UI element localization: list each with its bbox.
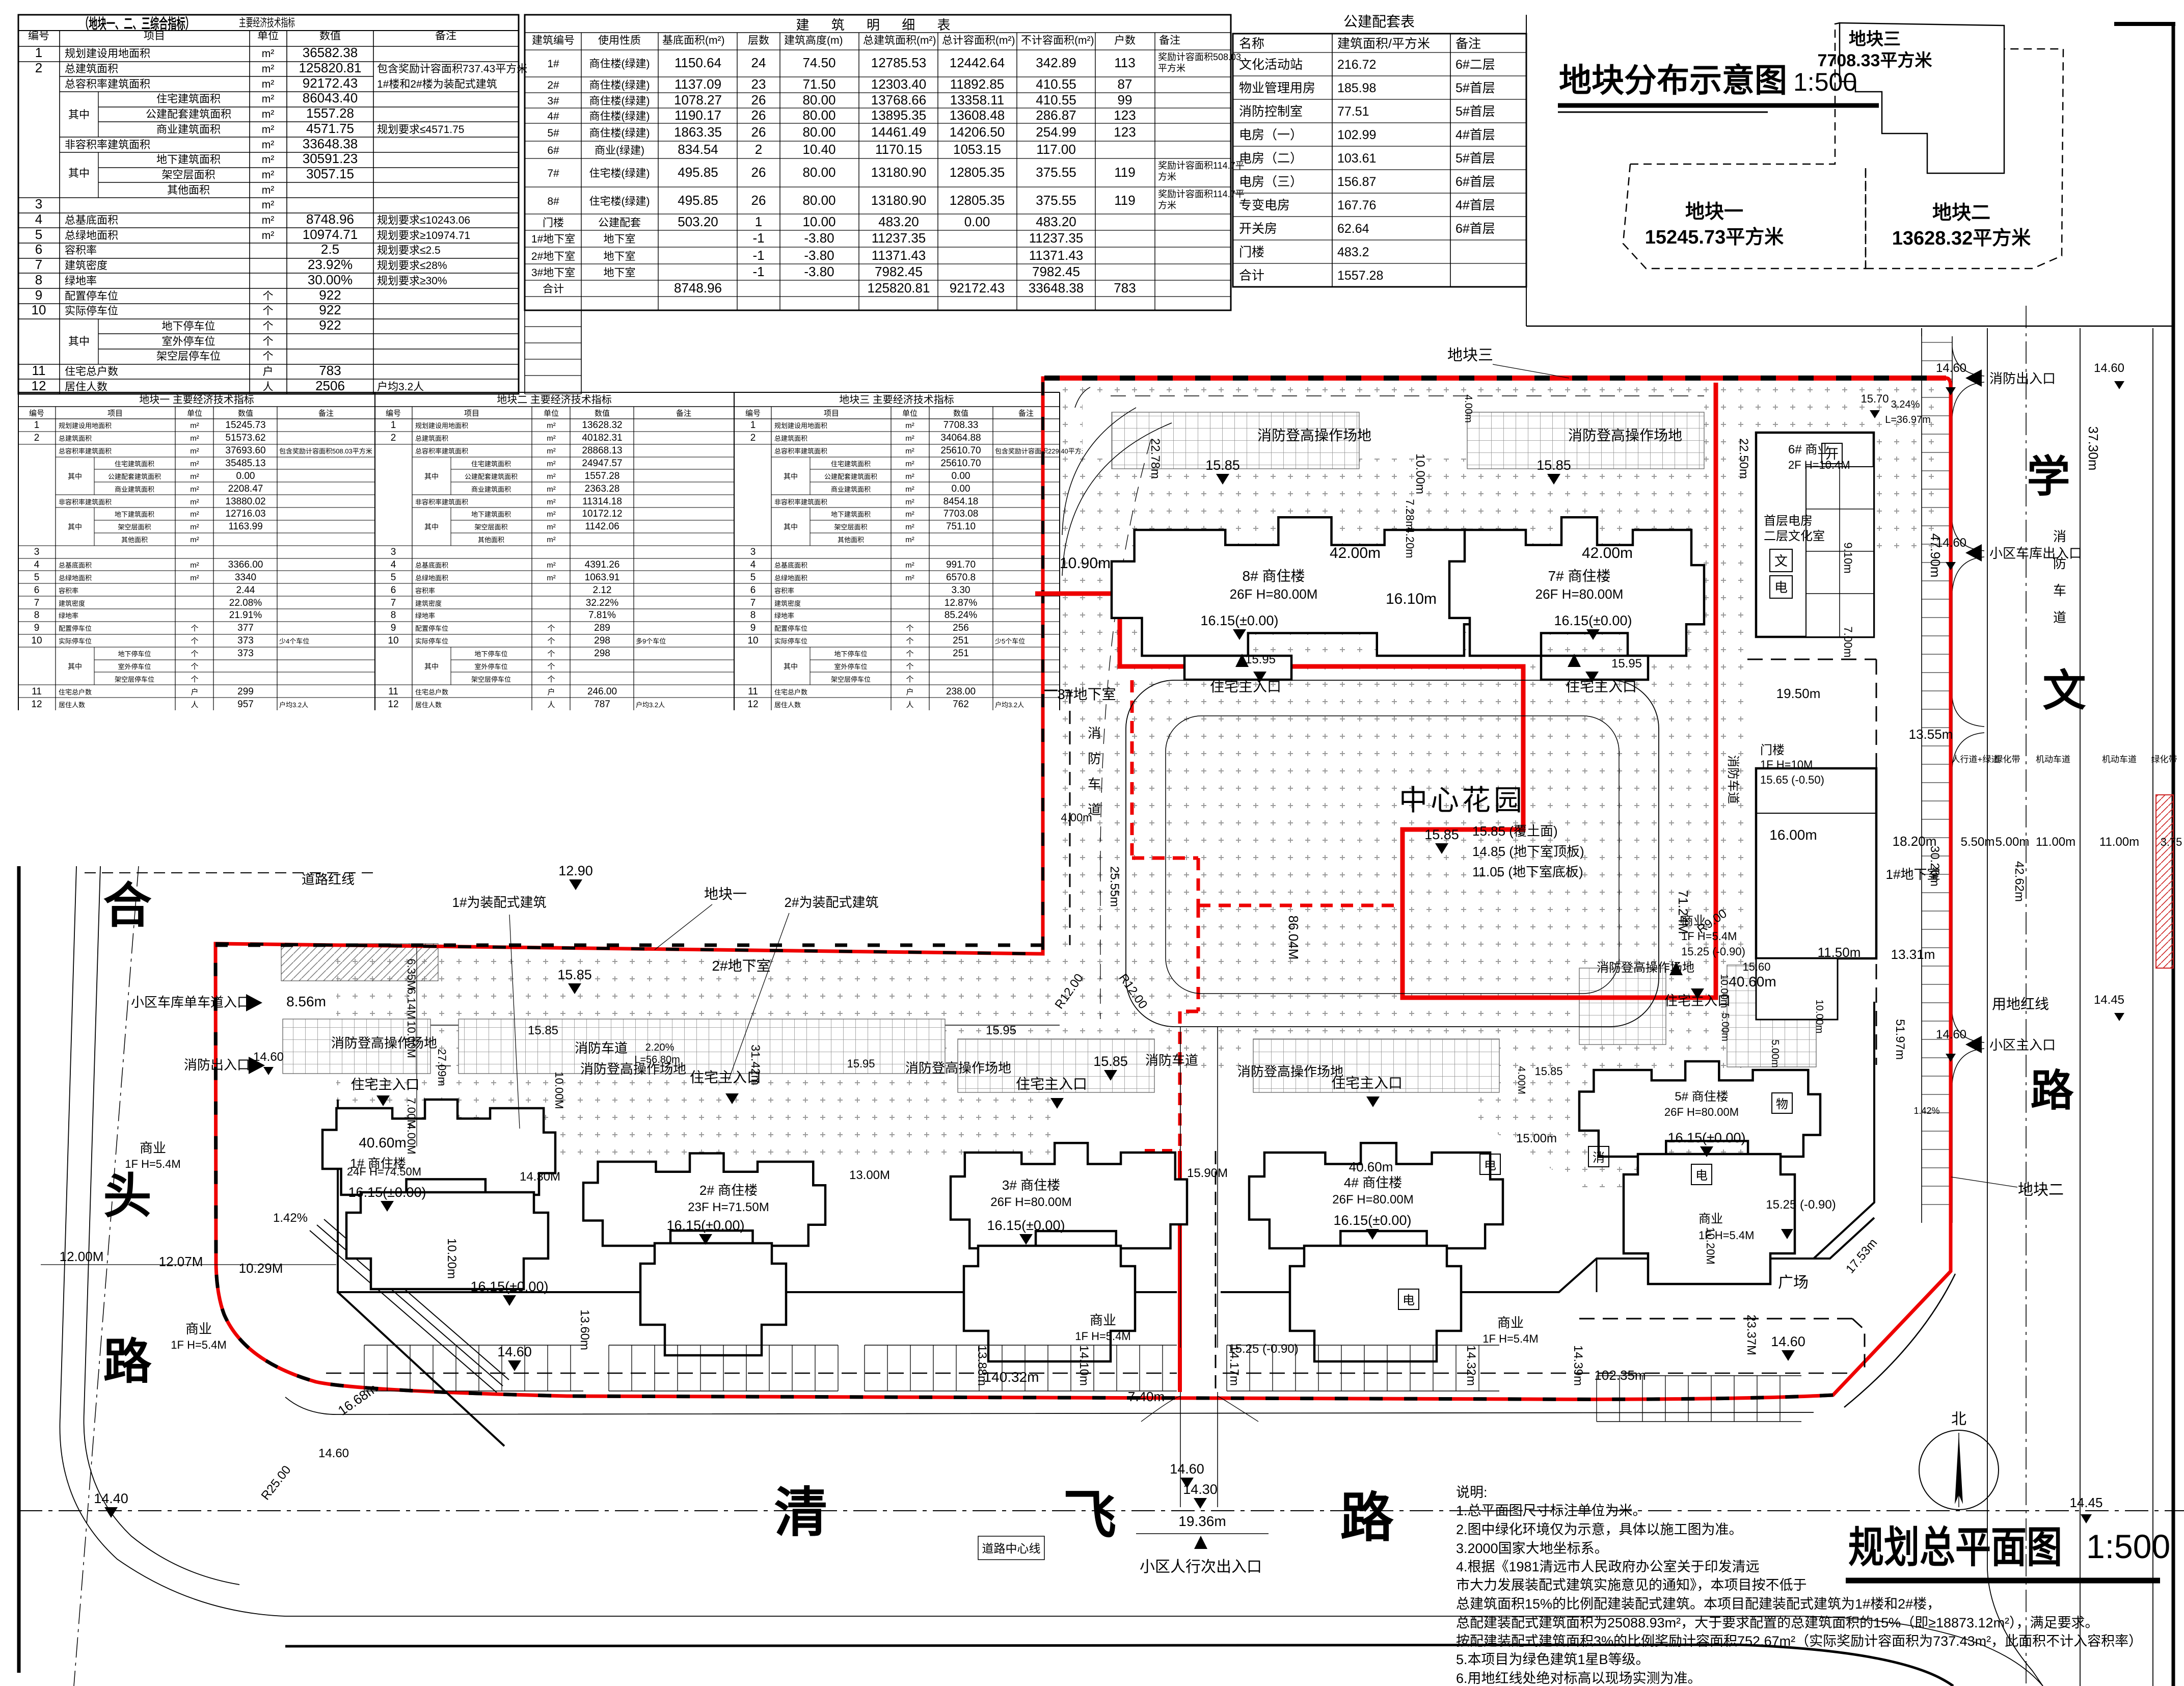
svg-text:13.60m: 13.60m <box>578 1309 591 1350</box>
svg-text:12785.53: 12785.53 <box>871 55 926 70</box>
svg-text:14.85 (地下室顶板): 14.85 (地下室顶板) <box>1472 844 1584 859</box>
svg-text:1150.64: 1150.64 <box>675 55 721 70</box>
svg-text:12716.03: 12716.03 <box>225 509 265 519</box>
svg-text:地下停车位: 地下停车位 <box>474 650 507 658</box>
svg-text:14.60: 14.60 <box>253 1050 284 1064</box>
svg-text:m²: m² <box>547 421 556 430</box>
svg-text:m²: m² <box>190 472 199 481</box>
svg-text:公建配套建筑面积: 公建配套建筑面积 <box>824 473 877 480</box>
svg-text:36582.38: 36582.38 <box>303 45 358 60</box>
svg-text:住宅总户数: 住宅总户数 <box>774 688 807 696</box>
svg-text:绿地率: 绿地率 <box>59 612 78 620</box>
svg-text:小区车库出入口: 小区车库出入口 <box>1989 546 2082 561</box>
svg-text:3: 3 <box>35 196 42 211</box>
svg-text:92172.43: 92172.43 <box>303 75 358 91</box>
svg-text:规划建设用地面积: 规划建设用地面积 <box>774 422 827 430</box>
svg-text:奖励计容面积114.7平: 奖励计容面积114.7平 <box>1158 160 1245 171</box>
svg-text:数值: 数值 <box>319 30 341 42</box>
svg-text:375.55: 375.55 <box>1036 165 1076 180</box>
svg-text:15.85 (覆土面): 15.85 (覆土面) <box>1472 823 1558 839</box>
svg-text:住宅楼(绿建): 住宅楼(绿建) <box>589 196 650 207</box>
svg-text:483.20: 483.20 <box>878 214 919 229</box>
svg-text:80.00: 80.00 <box>802 193 835 208</box>
svg-text:156.87: 156.87 <box>1337 175 1376 189</box>
building 2# lower wing <box>640 1243 786 1355</box>
svg-text:2: 2 <box>35 60 42 75</box>
svg-text:m²: m² <box>905 536 914 544</box>
svg-text:4: 4 <box>35 211 42 227</box>
black road edge curve bottom-right <box>1844 1274 1955 1407</box>
svg-text:人: 人 <box>191 701 198 709</box>
svg-text:922: 922 <box>319 302 341 317</box>
svg-text:9: 9 <box>35 287 42 303</box>
east road top corner <box>1921 328 1922 336</box>
svg-text:架空层面积: 架空层面积 <box>118 523 151 531</box>
svg-text:8.56m: 8.56m <box>286 994 326 1009</box>
svg-text:头: 头 <box>103 1169 151 1223</box>
svg-text:14206.50: 14206.50 <box>950 124 1005 140</box>
svg-text:5.00m: 5.00m <box>1719 1013 1731 1041</box>
svg-text:34064.88: 34064.88 <box>940 433 981 443</box>
svg-text:15.95: 15.95 <box>986 1024 1016 1037</box>
svg-text:787: 787 <box>594 699 610 710</box>
svg-text:25610.70: 25610.70 <box>940 445 981 456</box>
svg-text:15.60: 15.60 <box>1742 960 1770 973</box>
svg-text:3#: 3# <box>547 95 559 107</box>
svg-text:个: 个 <box>263 320 274 332</box>
svg-text:495.85: 495.85 <box>678 193 718 208</box>
svg-text:9: 9 <box>391 623 396 633</box>
parking stalls along south road <box>364 1345 583 1346</box>
svg-text:地下建筑面积: 地下建筑面积 <box>831 511 871 518</box>
svg-text:15.25 (-0.90): 15.25 (-0.90) <box>1766 1198 1836 1212</box>
svg-text:配置停车位: 配置停车位 <box>65 290 118 302</box>
entrance arrow <box>1669 962 1683 975</box>
svg-text:个: 个 <box>906 624 913 633</box>
svg-text:架空层面积: 架空层面积 <box>834 523 867 531</box>
svg-text:不计容面积(m²): 不计容面积(m²) <box>1021 35 1094 46</box>
svg-text:5: 5 <box>34 572 40 583</box>
svg-text:3# 商住楼: 3# 商住楼 <box>1002 1177 1060 1193</box>
svg-text:总基底面积: 总基底面积 <box>65 215 118 226</box>
svg-text:m²: m² <box>262 78 275 90</box>
svg-text:373: 373 <box>237 635 254 646</box>
svg-text:10.40: 10.40 <box>802 142 835 157</box>
svg-text:m²: m² <box>190 447 199 456</box>
svg-text:项目: 项目 <box>107 409 123 418</box>
svg-text:26F H=80.00M: 26F H=80.00M <box>1230 586 1318 602</box>
svg-text:规划要求≤2.5: 规划要求≤2.5 <box>377 245 441 256</box>
svg-text:4.00m: 4.00m <box>1463 394 1474 423</box>
svg-text:m²: m² <box>190 434 199 443</box>
svg-text:5: 5 <box>35 227 42 242</box>
svg-text:7703.08: 7703.08 <box>943 509 979 519</box>
svg-text:奖励计容面积508.03: 奖励计容面积508.03 <box>1158 52 1241 62</box>
svg-text:6: 6 <box>34 585 40 596</box>
svg-text:个: 个 <box>547 650 555 658</box>
svg-text:10.00m: 10.00m <box>1718 974 1730 1008</box>
svg-text:建筑密度: 建筑密度 <box>774 600 801 607</box>
building 5# 商住楼 26F slab <box>1579 1061 1820 1157</box>
svg-text:商住楼(绿建): 商住楼(绿建) <box>589 95 650 107</box>
svg-text:数值: 数值 <box>238 409 253 418</box>
svg-text:8748.96: 8748.96 <box>306 211 354 227</box>
svg-text:个: 个 <box>906 662 913 671</box>
svg-text:m²: m² <box>262 154 275 166</box>
plus pattern region plot2 center <box>1477 999 1747 1187</box>
svg-text:7982.45: 7982.45 <box>875 264 923 279</box>
svg-text:单位: 单位 <box>257 30 279 42</box>
svg-text:m²: m² <box>547 485 556 494</box>
svg-text:4: 4 <box>750 559 756 570</box>
svg-text:总绿地面积: 总绿地面积 <box>65 230 118 242</box>
west road centerline dash-dot <box>74 866 139 1686</box>
svg-text:503.20: 503.20 <box>678 214 718 229</box>
svg-text:备注: 备注 <box>1018 409 1034 418</box>
svg-text:地下室: 地下室 <box>604 251 636 262</box>
svg-text:个: 个 <box>191 675 198 684</box>
svg-text:地下停车位: 地下停车位 <box>118 650 151 658</box>
svg-text:2#地下室: 2#地下室 <box>712 958 770 974</box>
svg-text:m²: m² <box>262 199 275 211</box>
svg-text:文化活动站: 文化活动站 <box>1239 58 1303 72</box>
svg-text:28868.13: 28868.13 <box>582 445 622 456</box>
svg-text:6.35M: 6.35M <box>405 958 418 989</box>
svg-text:31.42m: 31.42m <box>748 1045 762 1085</box>
svg-text:m²: m² <box>262 124 275 136</box>
fire pad B (plot3 right) <box>1467 412 1704 469</box>
svg-text:商业建筑面积: 商业建筑面积 <box>471 486 511 493</box>
svg-text:其中: 其中 <box>68 472 82 480</box>
svg-text:10.00: 10.00 <box>802 214 835 229</box>
svg-text:10974.71: 10974.71 <box>303 227 358 242</box>
svg-text:14.60: 14.60 <box>1170 1461 1204 1477</box>
svg-text:4571.75: 4571.75 <box>306 121 354 136</box>
svg-text:13.31m: 13.31m <box>1891 947 1935 962</box>
svg-text:人: 人 <box>547 701 555 709</box>
svg-text:m²: m² <box>262 93 275 105</box>
svg-text:4#首层: 4#首层 <box>1455 198 1495 212</box>
svg-text:使用性质: 使用性质 <box>598 35 641 46</box>
svg-text:2: 2 <box>750 433 756 443</box>
svg-text:户均3.2人: 户均3.2人 <box>995 701 1024 709</box>
svg-text:15.00m: 15.00m <box>1516 1132 1557 1145</box>
svg-text:消防车道: 消防车道 <box>1145 1053 1198 1068</box>
svg-text:单位: 单位 <box>544 409 559 418</box>
svg-text:5#首层: 5#首层 <box>1455 151 1495 166</box>
svg-text:其中: 其中 <box>784 662 798 671</box>
svg-text:个: 个 <box>547 675 555 684</box>
svg-text:9: 9 <box>750 623 756 633</box>
svg-text:62.64: 62.64 <box>1337 222 1369 236</box>
svg-text:7: 7 <box>391 598 396 608</box>
svg-text:户: 户 <box>263 366 274 378</box>
svg-text:13608.48: 13608.48 <box>950 108 1005 123</box>
svg-text:建筑密度: 建筑密度 <box>59 600 85 607</box>
svg-text:室外停车位: 室外停车位 <box>118 663 151 671</box>
svg-text:绿化带: 绿化带 <box>2151 755 2177 764</box>
svg-text:备注: 备注 <box>1455 37 1481 51</box>
svg-text:6570.8: 6570.8 <box>946 572 976 583</box>
svg-text:12: 12 <box>388 699 398 710</box>
svg-text:电房（二）: 电房（二） <box>1239 151 1303 166</box>
gate walkway lines to road <box>1180 1392 1181 1507</box>
svg-text:10.90m: 10.90m <box>1060 555 1111 572</box>
svg-text:4# 商住楼: 4# 商住楼 <box>1344 1175 1402 1190</box>
svg-text:23.92%: 23.92% <box>308 257 353 272</box>
svg-text:实际停车位: 实际停车位 <box>65 305 118 317</box>
svg-text:电房（三）: 电房（三） <box>1239 175 1303 189</box>
svg-text:11237.35: 11237.35 <box>1029 230 1084 246</box>
svg-text:15.25 (-0.90): 15.25 (-0.90) <box>1681 945 1745 958</box>
svg-text:12805.35: 12805.35 <box>950 165 1005 180</box>
svg-text:35485.13: 35485.13 <box>225 458 265 469</box>
svg-text:11371.43: 11371.43 <box>1029 248 1084 263</box>
svg-text:消防登高操作场地: 消防登高操作场地 <box>1568 427 1682 443</box>
svg-text:15.95: 15.95 <box>1245 653 1276 666</box>
svg-text:其他面积: 其他面积 <box>167 184 210 196</box>
svg-text:11892.85: 11892.85 <box>950 76 1005 92</box>
central ring road around garden <box>1126 680 1659 1027</box>
svg-text:规划要求≥30%: 规划要求≥30% <box>377 275 447 287</box>
svg-text:住宅建筑面积: 住宅建筑面积 <box>156 93 221 105</box>
svg-text:10: 10 <box>747 635 758 646</box>
building 4# lower wing <box>1290 1246 1461 1361</box>
svg-text:合计: 合计 <box>1239 269 1264 283</box>
svg-text:包含奖励计容面积737.43平方米: 包含奖励计容面积737.43平方米 <box>377 63 527 75</box>
svg-text:二层文化室: 二层文化室 <box>1764 529 1825 543</box>
svg-text:12: 12 <box>31 699 42 710</box>
svg-text:80.00: 80.00 <box>802 165 835 180</box>
svg-text:10: 10 <box>388 635 398 646</box>
svg-text:15.95: 15.95 <box>1611 657 1642 671</box>
svg-text:商业建筑面积: 商业建筑面积 <box>115 486 154 493</box>
svg-text:1863.35: 1863.35 <box>674 124 722 140</box>
fire pad G (right) <box>1727 965 1816 1067</box>
svg-text:m²: m² <box>262 184 275 196</box>
red dashed boundary plot1/plot3 lower <box>1130 680 1134 858</box>
svg-text:12442.64: 12442.64 <box>950 55 1005 70</box>
svg-text:总建筑面积: 总建筑面积 <box>774 435 807 442</box>
svg-text:1#为装配式建筑: 1#为装配式建筑 <box>452 895 547 910</box>
svg-text:86043.40: 86043.40 <box>303 90 358 105</box>
svg-text:13358.11: 13358.11 <box>950 92 1005 108</box>
svg-text:住宅总户数: 住宅总户数 <box>59 688 92 696</box>
svg-text:4.00m: 4.00m <box>1061 811 1092 824</box>
svg-text:30.00%: 30.00% <box>308 272 353 287</box>
svg-text:地块一: 地块一 <box>704 886 747 902</box>
building 3# lower wing <box>964 1246 1135 1361</box>
svg-text:备注: 备注 <box>676 409 691 418</box>
svg-text:m²: m² <box>547 498 556 506</box>
svg-text:架空层停车位: 架空层停车位 <box>115 676 154 683</box>
svg-text:地块一: 地块一 <box>1685 201 1743 223</box>
svg-text:37.30m: 37.30m <box>2086 426 2101 471</box>
svg-text:2: 2 <box>391 433 396 443</box>
svg-text:26F H=80.00M: 26F H=80.00M <box>990 1195 1071 1209</box>
svg-text:m²: m² <box>190 523 199 531</box>
svg-text:251: 251 <box>953 635 969 646</box>
svg-text:用地红线: 用地红线 <box>1992 996 2049 1012</box>
svg-text:m²: m² <box>547 523 556 531</box>
svg-text:11.05 (地下室底板): 11.05 (地下室底板) <box>1472 864 1583 879</box>
svg-text:小区车库单车道入口: 小区车库单车道入口 <box>131 995 250 1010</box>
svg-text:个: 个 <box>263 336 274 347</box>
svg-text:483.20: 483.20 <box>1036 214 1076 229</box>
svg-text:绿地率: 绿地率 <box>774 612 794 620</box>
svg-text:11.00m: 11.00m <box>2036 835 2075 849</box>
svg-text:住宅主入口: 住宅主入口 <box>351 1077 420 1092</box>
svg-text:总容积率建筑面积: 总容积率建筑面积 <box>774 447 827 455</box>
6# glazing grid <box>1806 467 1874 637</box>
svg-text:14.10m: 14.10m <box>1077 1345 1091 1386</box>
svg-text:总建筑面积: 总建筑面积 <box>415 435 448 442</box>
svg-text:102.99: 102.99 <box>1337 128 1376 142</box>
svg-text:户: 户 <box>191 688 198 697</box>
svg-text:3366.00: 3366.00 <box>228 559 263 570</box>
svg-text:14.40: 14.40 <box>94 1491 128 1506</box>
svg-text:室外停车位: 室外停车位 <box>162 336 215 347</box>
svg-text:m²: m² <box>262 48 275 60</box>
svg-text:总绿地面积: 总绿地面积 <box>415 574 448 582</box>
svg-text:其中: 其中 <box>68 336 90 347</box>
svg-text:消防登高操作场地: 消防登高操作场地 <box>1597 961 1694 975</box>
svg-text:建筑密度: 建筑密度 <box>65 260 107 272</box>
svg-text:备注: 备注 <box>318 409 334 418</box>
svg-text:其中: 其中 <box>784 523 798 531</box>
svg-text:3#地下室: 3#地下室 <box>531 267 575 279</box>
svg-text:15245.73: 15245.73 <box>225 420 265 431</box>
svg-text:商业: 商业 <box>185 1321 212 1336</box>
svg-text:12: 12 <box>32 378 46 393</box>
svg-text:14.30M: 14.30M <box>520 1170 560 1184</box>
svg-text:42.00m: 42.00m <box>1582 545 1633 561</box>
svg-text:居住人数: 居住人数 <box>415 701 442 709</box>
svg-text:非容积率建筑面积: 非容积率建筑面积 <box>59 498 112 506</box>
svg-text:15.85: 15.85 <box>1093 1054 1128 1069</box>
svg-text:m²: m² <box>190 536 199 544</box>
svg-text:室外停车位: 室外停车位 <box>834 663 867 671</box>
svg-text:11: 11 <box>748 686 758 697</box>
svg-text:其中: 其中 <box>424 662 439 671</box>
svg-text:7.40m: 7.40m <box>1128 1389 1165 1404</box>
svg-text:数值: 数值 <box>953 409 968 418</box>
svg-text:地下停车位: 地下停车位 <box>834 650 867 658</box>
svg-text:配置停车位: 配置停车位 <box>415 625 448 632</box>
svg-text:消防登高操作场地: 消防登高操作场地 <box>1237 1064 1343 1079</box>
svg-text:2.20%: 2.20% <box>645 1042 675 1053</box>
svg-text:规划总平面图: 规划总平面图 <box>1848 1523 2062 1571</box>
svg-text:16.15(±0.00): 16.15(±0.00) <box>1201 613 1279 628</box>
south road thick edge <box>285 1645 1953 1686</box>
svg-text:m²: m² <box>262 139 275 151</box>
svg-text:40.60m: 40.60m <box>1729 974 1776 989</box>
svg-text:总基底面积: 总基底面积 <box>774 561 807 569</box>
svg-text:容积率: 容积率 <box>774 587 794 595</box>
svg-text:住宅建筑面积: 住宅建筑面积 <box>471 460 511 468</box>
svg-text:-1: -1 <box>752 230 764 246</box>
svg-text:项目: 项目 <box>144 30 165 42</box>
svg-text:总容积率建筑面积: 总容积率建筑面积 <box>59 447 112 455</box>
svg-text:238.00: 238.00 <box>946 686 976 697</box>
svg-text:-1: -1 <box>752 264 764 279</box>
svg-text:15.70: 15.70 <box>1861 392 1889 405</box>
svg-text:住宅总户数: 住宅总户数 <box>415 688 448 696</box>
svg-text:总基底面积: 总基底面积 <box>59 561 92 569</box>
svg-text:1078.27: 1078.27 <box>674 92 722 108</box>
svg-text:架空层面积: 架空层面积 <box>474 523 507 531</box>
svg-text:小区人行次出入口: 小区人行次出入口 <box>1140 1559 1262 1575</box>
svg-text:方米: 方米 <box>1158 172 1176 182</box>
svg-text:商业: 商业 <box>1698 1212 1723 1226</box>
svg-text:m²: m² <box>190 561 199 570</box>
small shop south of gate <box>1756 958 1838 1020</box>
entrance arrow <box>1235 654 1249 667</box>
red plot division line <box>1035 383 1716 998</box>
svg-text:30591.23: 30591.23 <box>303 151 358 166</box>
svg-text:规划建设用地面积: 规划建设用地面积 <box>415 422 468 430</box>
svg-text:机动车道: 机动车道 <box>2102 755 2137 764</box>
svg-text:13.88m: 13.88m <box>975 1345 989 1386</box>
svg-text:户数: 户数 <box>1114 35 1136 46</box>
svg-text:12805.35: 12805.35 <box>950 193 1005 208</box>
svg-text:2#为装配式建筑: 2#为装配式建筑 <box>785 895 879 910</box>
svg-text:商业建筑面积: 商业建筑面积 <box>156 124 221 136</box>
svg-text:74.50: 74.50 <box>802 55 835 70</box>
svg-text:125820.81: 125820.81 <box>299 60 362 75</box>
svg-text:m²: m² <box>190 574 199 582</box>
svg-text:80.00: 80.00 <box>802 92 835 108</box>
svg-text:2F H=10.4M: 2F H=10.4M <box>1788 459 1850 471</box>
svg-text:消防登高操作场地: 消防登高操作场地 <box>905 1060 1011 1076</box>
svg-text:1: 1 <box>34 420 40 431</box>
svg-text:10.20m: 10.20m <box>445 1238 459 1279</box>
svg-text:783: 783 <box>319 363 341 378</box>
building 门楼 gate house <box>1756 768 1876 958</box>
svg-text:防: 防 <box>1088 751 1101 766</box>
svg-text:113: 113 <box>1114 55 1135 70</box>
svg-text:14.60: 14.60 <box>1771 1334 1805 1349</box>
svg-text:3.24%: 3.24% <box>1891 399 1920 410</box>
svg-text:11: 11 <box>32 363 46 378</box>
svg-text:其中: 其中 <box>68 168 90 179</box>
svg-text:13.55m: 13.55m <box>1909 727 1953 742</box>
svg-text:23: 23 <box>751 76 766 92</box>
fire pad H <box>1579 968 1666 1045</box>
svg-text:商住楼(绿建): 商住楼(绿建) <box>589 79 650 91</box>
svg-text:室外停车位: 室外停车位 <box>474 663 507 671</box>
svg-text:26: 26 <box>751 165 766 180</box>
building 6# 商业 2F outline <box>1756 433 1874 637</box>
svg-text:33648.38: 33648.38 <box>303 136 358 151</box>
east road 学文路 lines <box>1987 328 1988 1569</box>
fire pad E <box>958 1039 1154 1092</box>
svg-text:个: 个 <box>263 351 274 362</box>
svg-text:容积率: 容积率 <box>65 245 97 256</box>
svg-text:1:500: 1:500 <box>2086 1528 2170 1565</box>
svg-text:m²: m² <box>905 447 914 456</box>
svg-text:居住人数: 居住人数 <box>65 381 107 393</box>
svg-text:2#: 2# <box>547 79 559 91</box>
svg-text:其中: 其中 <box>68 109 90 121</box>
svg-text:个: 个 <box>906 637 913 646</box>
svg-text:商业: 商业 <box>1497 1315 1524 1330</box>
svg-text:总基底面积: 总基底面积 <box>415 561 448 569</box>
svg-text:51573.62: 51573.62 <box>225 433 265 443</box>
fire pad F <box>1253 1039 1499 1092</box>
svg-text:3.30: 3.30 <box>952 585 970 596</box>
svg-text:消防出入口: 消防出入口 <box>184 1057 250 1073</box>
